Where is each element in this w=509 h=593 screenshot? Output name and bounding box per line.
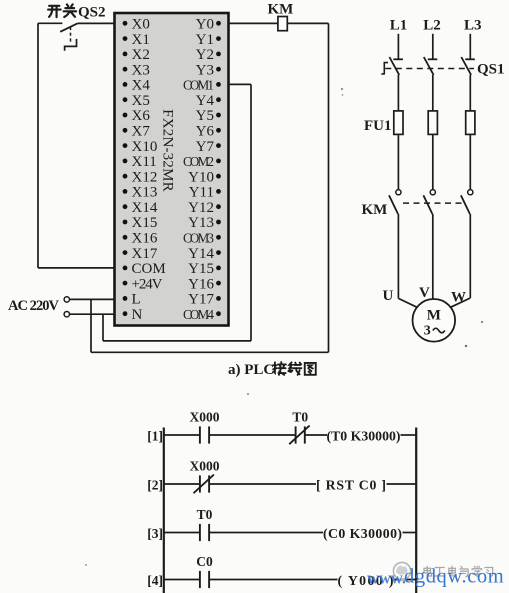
svg-text:(C0 K30000): (C0 K30000) bbox=[323, 526, 402, 542]
svg-text:AC 220V: AC 220V bbox=[8, 298, 60, 314]
svg-text:X17: X17 bbox=[132, 246, 158, 262]
svg-text:a) PLC: a) PLC bbox=[228, 362, 274, 378]
svg-text:X5: X5 bbox=[132, 93, 150, 109]
svg-text:3: 3 bbox=[424, 324, 431, 339]
svg-text:X1: X1 bbox=[132, 32, 150, 48]
svg-text:Y13: Y13 bbox=[188, 215, 214, 231]
svg-text:Y3: Y3 bbox=[196, 62, 214, 78]
svg-text:V: V bbox=[419, 285, 430, 301]
svg-text:X10: X10 bbox=[132, 139, 158, 155]
svg-text:L: L bbox=[132, 292, 141, 308]
svg-text:QS2: QS2 bbox=[78, 4, 106, 20]
svg-text:Y2: Y2 bbox=[196, 47, 214, 63]
svg-text:Y12: Y12 bbox=[188, 200, 214, 216]
svg-text:(T0 K30000): (T0 K30000) bbox=[327, 429, 401, 445]
svg-text:Y1: Y1 bbox=[196, 32, 214, 48]
svg-text:X11: X11 bbox=[132, 154, 157, 170]
svg-text:L2: L2 bbox=[423, 18, 441, 34]
svg-text:M: M bbox=[427, 308, 441, 324]
svg-text:U: U bbox=[383, 288, 394, 304]
svg-text:KM: KM bbox=[268, 2, 294, 18]
svg-text:+24V: +24V bbox=[132, 276, 163, 292]
svg-text:Y16: Y16 bbox=[188, 276, 214, 292]
svg-text:COM2: COM2 bbox=[183, 154, 214, 169]
svg-text:Y5: Y5 bbox=[196, 108, 214, 124]
svg-text:Y7: Y7 bbox=[196, 139, 215, 155]
svg-text:Y15: Y15 bbox=[188, 261, 214, 277]
svg-text:X000: X000 bbox=[190, 410, 220, 425]
svg-text:[2]: [2] bbox=[147, 478, 163, 493]
svg-text:X12: X12 bbox=[132, 169, 158, 185]
svg-text:X16: X16 bbox=[132, 231, 158, 247]
svg-text:T0: T0 bbox=[292, 410, 308, 425]
svg-text:X15: X15 bbox=[132, 215, 158, 231]
svg-text:L1: L1 bbox=[390, 18, 408, 34]
svg-text:QS1: QS1 bbox=[477, 62, 505, 78]
svg-text:Y10: Y10 bbox=[188, 169, 214, 185]
svg-text:FX2N-32MR: FX2N-32MR bbox=[160, 109, 176, 192]
svg-text:KM: KM bbox=[362, 202, 388, 218]
svg-text:C0: C0 bbox=[196, 554, 213, 569]
svg-text:X000: X000 bbox=[190, 459, 220, 474]
svg-text:[ RST C0 ]: [ RST C0 ] bbox=[316, 478, 386, 493]
svg-text:COM4: COM4 bbox=[183, 307, 214, 322]
svg-text:X4: X4 bbox=[132, 78, 151, 94]
svg-text:L3: L3 bbox=[464, 18, 482, 34]
svg-text:Y14: Y14 bbox=[188, 246, 214, 262]
svg-text:Y17: Y17 bbox=[188, 292, 214, 308]
svg-text:X6: X6 bbox=[132, 108, 151, 124]
svg-text:www.: www. bbox=[367, 569, 406, 588]
svg-text:X13: X13 bbox=[132, 185, 158, 201]
svg-text:COM3: COM3 bbox=[183, 231, 214, 246]
svg-text:Y6: Y6 bbox=[196, 124, 215, 140]
svg-text:N: N bbox=[132, 307, 143, 323]
svg-text:COM1: COM1 bbox=[183, 78, 214, 93]
svg-text:X2: X2 bbox=[132, 47, 150, 63]
svg-text:dgdqw.com: dgdqw.com bbox=[404, 566, 504, 588]
svg-text:Y11: Y11 bbox=[189, 185, 214, 201]
svg-text:Y0: Y0 bbox=[196, 17, 214, 33]
svg-text:X0: X0 bbox=[132, 17, 150, 33]
svg-text:X3: X3 bbox=[132, 62, 150, 78]
svg-text:Y4: Y4 bbox=[196, 93, 215, 109]
svg-text:FU1: FU1 bbox=[364, 118, 392, 134]
svg-text:X7: X7 bbox=[132, 124, 151, 140]
svg-text:[1]: [1] bbox=[147, 429, 163, 444]
svg-text:W: W bbox=[451, 290, 466, 306]
svg-text:X14: X14 bbox=[132, 200, 158, 216]
svg-text:T0: T0 bbox=[197, 507, 213, 522]
svg-text:[3]: [3] bbox=[147, 526, 163, 541]
svg-text:COM: COM bbox=[132, 261, 166, 277]
svg-text:[4]: [4] bbox=[147, 573, 163, 588]
